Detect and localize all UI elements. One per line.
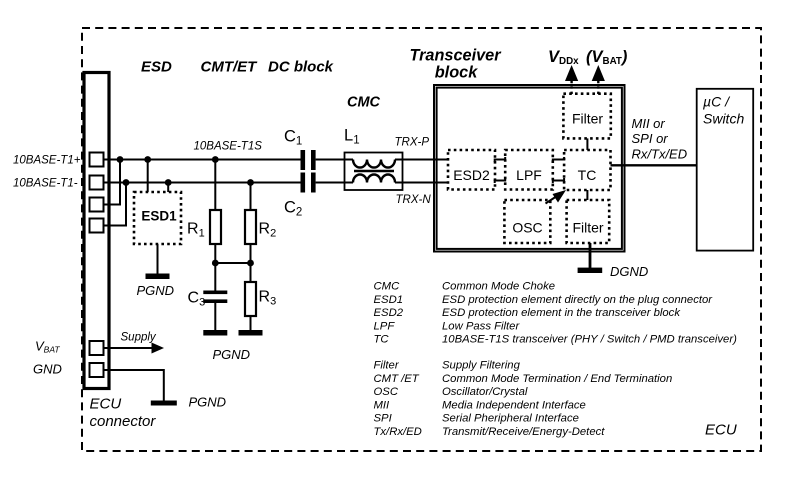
svg-text:ESD1: ESD1	[141, 209, 177, 224]
resistor R2	[245, 210, 276, 244]
svg-text:Filter: Filter	[572, 220, 603, 236]
junction dot R2/R3	[247, 260, 254, 267]
junction dot R1/T1+	[212, 156, 219, 163]
wire pin4 to T1-	[103, 183, 126, 226]
junction dot ESD1/T1+	[144, 156, 151, 163]
wire ESD1 to ground	[157, 244, 159, 274]
pin 1 (10BASE-T1+)	[90, 153, 104, 167]
svg-text:SPI: SPI	[374, 413, 393, 425]
ground PGND (supply)	[151, 395, 226, 410]
supply arrow VBAT	[592, 65, 605, 94]
capacitor C3	[188, 290, 228, 309]
svg-text:DC block: DC block	[268, 59, 334, 76]
svg-text:10BASE-T1S: 10BASE-T1S	[194, 141, 263, 153]
wire ESD2-LPF top stub	[495, 157, 506, 162]
svg-text:OSC: OSC	[374, 386, 399, 398]
svg-text:Switch: Switch	[703, 111, 744, 127]
svg-text:Filter: Filter	[572, 111, 603, 127]
wire R1 bottom	[214, 244, 216, 263]
wire LPF-TC top stub	[553, 157, 564, 162]
common mode choke L1	[344, 127, 403, 191]
svg-text:Transceiver: Transceiver	[409, 47, 502, 65]
ground bar under C3	[203, 330, 227, 336]
ECU dashed boundary	[82, 28, 761, 451]
svg-text:LPF: LPF	[374, 320, 396, 332]
ECU connector body	[84, 73, 109, 389]
ESD1 box	[134, 192, 181, 244]
pin 4	[90, 219, 104, 233]
svg-text:CMC: CMC	[347, 95, 381, 111]
svg-text:10BASE-T1+: 10BASE-T1+	[13, 155, 81, 167]
svg-text:Filter: Filter	[374, 360, 400, 372]
svg-text:block: block	[435, 64, 478, 82]
svg-text:Supply: Supply	[121, 331, 157, 343]
svg-text:SPI or: SPI or	[632, 131, 669, 146]
svg-text:ESD2: ESD2	[453, 167, 490, 183]
Filter box (top)	[563, 94, 610, 139]
svg-text:Transmit/Receive/Energy-Detect: Transmit/Receive/Energy-Detect	[442, 426, 605, 438]
wire 10BASE-T1- line	[103, 182, 301, 184]
svg-text:LPF: LPF	[516, 167, 542, 183]
wire TC bottom stub to Filter	[586, 190, 588, 200]
wire TRX-N into transceiver	[403, 182, 449, 184]
junction dot pin3/T1+	[117, 156, 124, 163]
wire C3 stub	[214, 263, 216, 291]
pin 6 (GND)	[90, 363, 104, 377]
wire TC to microcontroller	[611, 164, 697, 166]
legend group 2	[374, 360, 673, 439]
svg-text:Tx/Rx/ED: Tx/Rx/ED	[374, 426, 422, 438]
title Transceiver block	[409, 47, 502, 82]
svg-text:MII: MII	[374, 399, 391, 411]
resistor R3	[245, 282, 276, 316]
arrow OSC to TC	[546, 190, 567, 204]
legend group 1	[374, 281, 738, 346]
svg-text:GND: GND	[33, 362, 62, 377]
wire TC top stub to Filter	[586, 138, 588, 150]
svg-text:ECU: ECU	[705, 422, 737, 439]
junction dot R1/C3	[212, 260, 219, 267]
svg-text:ECU: ECU	[90, 396, 122, 413]
capacitor C2	[284, 173, 316, 219]
svg-text:ESD2: ESD2	[374, 307, 404, 319]
junction dot R2/T1-	[247, 179, 254, 186]
ground DGND	[578, 264, 649, 279]
svg-text:Media Independent Interface: Media Independent Interface	[442, 399, 586, 411]
svg-text:ESD protection element directl: ESD protection element directly on the p…	[442, 294, 713, 306]
wire Filter to DGND	[589, 243, 592, 268]
svg-text:TC: TC	[374, 334, 390, 346]
wire R3 to ground	[250, 316, 252, 330]
svg-text:TRX-P: TRX-P	[395, 137, 430, 149]
pin 2 (10BASE-T1-)	[90, 176, 104, 190]
capacitor C1	[284, 128, 316, 171]
svg-text:DGND: DGND	[610, 264, 648, 279]
svg-text:PGND: PGND	[213, 347, 251, 362]
wire ESD2-LPF bottom stub	[495, 178, 506, 183]
TC box	[564, 150, 610, 190]
wire R2 bottom	[250, 244, 252, 263]
wire TRX-P into transceiver	[403, 159, 449, 161]
svg-text:PGND: PGND	[137, 283, 175, 298]
svg-text:10BASE-T1-: 10BASE-T1-	[13, 178, 78, 190]
ground bar under R3	[239, 330, 263, 336]
svg-text:TRX-N: TRX-N	[396, 194, 432, 206]
wire ESD1 stub from T1-	[167, 183, 169, 193]
pin 5 (VBAT)	[90, 341, 104, 355]
label Supply + arrow	[104, 331, 165, 353]
svg-text:Low Pass Filter: Low Pass Filter	[442, 320, 520, 332]
transceiver block outline	[434, 85, 625, 252]
svg-text:PGND: PGND	[189, 395, 227, 410]
svg-text:CMC: CMC	[374, 281, 401, 293]
svg-text:Rx/Tx/ED: Rx/Tx/ED	[632, 147, 688, 162]
wire R2 stub	[250, 183, 252, 211]
svg-text:connector: connector	[90, 413, 157, 430]
wire ESD1 stub from T1+	[147, 160, 149, 193]
svg-text:TC: TC	[578, 167, 597, 183]
LPF box	[505, 150, 553, 190]
ground PGND (ESD1)	[137, 274, 175, 299]
wire GND pin to ground	[104, 370, 164, 401]
label MII or SPI or Rx/Tx/ED	[632, 116, 688, 162]
ESD2 box	[448, 150, 495, 190]
OSC box	[504, 200, 550, 243]
wire C1 to CMC	[316, 159, 345, 161]
svg-text:MII or: MII or	[632, 116, 666, 131]
svg-text:ESD protection element in the: ESD protection element in the transceive…	[442, 307, 681, 319]
svg-text:Oscillator/Crystal: Oscillator/Crystal	[442, 386, 528, 398]
wire R3 stub	[250, 263, 252, 282]
pin 3	[90, 198, 104, 212]
svg-text:10BASE-T1S transceiver (PHY /: 10BASE-T1S transceiver (PHY / Switch / P…	[442, 334, 737, 346]
wire C2 to CMC	[316, 182, 345, 184]
wire R1-R2 junction	[215, 262, 250, 264]
supply arrow VDDx	[565, 65, 578, 94]
junction dot ESD1/T1-	[165, 179, 172, 186]
svg-text:µC /: µC /	[703, 94, 731, 110]
wire R1 stub	[214, 160, 216, 211]
svg-text:Serial Pheripheral Interface: Serial Pheripheral Interface	[442, 413, 579, 425]
svg-text:Supply Filtering: Supply Filtering	[442, 360, 521, 372]
wire pin3 to T1+	[103, 160, 120, 205]
svg-text:Common Mode Choke: Common Mode Choke	[442, 281, 555, 293]
svg-text:ESD: ESD	[141, 59, 172, 76]
svg-text:Common Mode Termination / End: Common Mode Termination / End Terminatio…	[442, 373, 672, 385]
junction dot pin4/T1-	[123, 179, 130, 186]
microcontroller box	[697, 89, 754, 251]
resistor R1	[187, 210, 221, 244]
svg-text:OSC: OSC	[512, 220, 542, 236]
svg-text:CMT/ET: CMT/ET	[201, 59, 259, 76]
label ECU connector	[90, 396, 157, 431]
svg-text:CMT /ET: CMT /ET	[374, 373, 420, 385]
wire C3 to ground	[214, 303, 216, 330]
Filter box (bottom)	[567, 200, 610, 243]
wire LPF-TC bottom stub	[553, 178, 564, 183]
svg-text:ESD1: ESD1	[374, 294, 404, 306]
wire 10BASE-T1+ line	[103, 159, 301, 161]
